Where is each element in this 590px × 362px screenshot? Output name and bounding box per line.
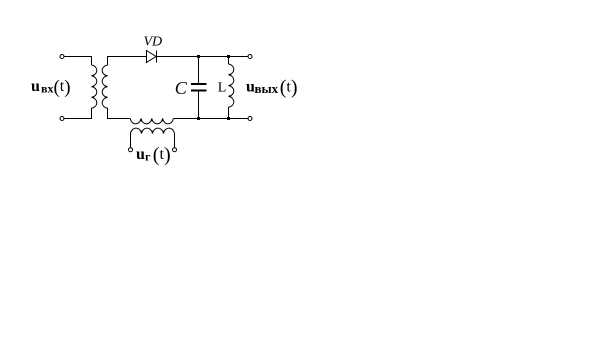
svg-text:): ) [291, 76, 298, 98]
wire inductor bottom lead [228, 107, 230, 118]
svg-text:): ) [64, 77, 70, 98]
node bottom-L [227, 117, 230, 120]
transformer T1 secondary winding W2 [102, 65, 107, 108]
node top-C [197, 55, 200, 58]
svg-text:u: u [31, 78, 40, 95]
node top-L [227, 55, 230, 58]
saturable reactor winding W3 (in output loop) [130, 119, 173, 124]
terminal left-bottom [60, 117, 64, 121]
terminal left-top [60, 55, 64, 59]
wire inductor top lead [228, 57, 230, 65]
wire secondary top to diode [108, 57, 147, 66]
wire capacitor bottom lead [198, 91, 200, 118]
terminal gate-left [129, 148, 133, 152]
diode VD [147, 51, 157, 63]
wire capacitor top lead [198, 57, 200, 84]
capacitor C [191, 83, 206, 85]
wire secondary bottom to saturable winding [108, 108, 131, 118]
svg-text:вых: вых [255, 81, 279, 96]
transformer T1 primary winding W1 [92, 65, 97, 108]
wire top rail diode to output [157, 56, 249, 58]
svg-text:L: L [218, 80, 227, 95]
wire left-top lead [64, 57, 92, 66]
wire left-bottom lead [64, 108, 92, 118]
wire bottom rail to output [173, 118, 248, 120]
terminal right-bottom [248, 117, 252, 121]
terminal gate-right [173, 148, 177, 152]
svg-text:VD: VD [144, 35, 163, 50]
svg-text:): ) [164, 144, 171, 166]
svg-text:C: C [175, 78, 188, 98]
svg-text:г: г [145, 150, 151, 164]
svg-text:вх: вх [41, 82, 53, 96]
inductor L [229, 64, 234, 107]
control winding W4 [131, 128, 175, 133]
wire control winding right lead [174, 134, 176, 148]
svg-text:u: u [136, 146, 145, 163]
terminal right-top [248, 55, 252, 59]
node bottom-C [197, 117, 200, 120]
wire control winding left lead [130, 134, 132, 148]
